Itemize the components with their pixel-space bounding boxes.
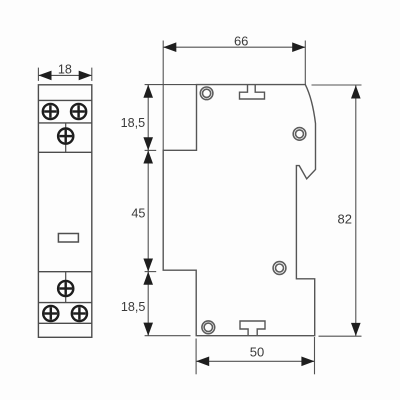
svg-text:45: 45 — [131, 207, 145, 221]
svg-text:18: 18 — [58, 63, 72, 77]
svg-text:82: 82 — [338, 212, 352, 227]
svg-text:50: 50 — [250, 345, 264, 360]
svg-text:66: 66 — [234, 33, 248, 48]
svg-text:18,5: 18,5 — [121, 116, 146, 130]
svg-text:18,5: 18,5 — [121, 300, 146, 314]
